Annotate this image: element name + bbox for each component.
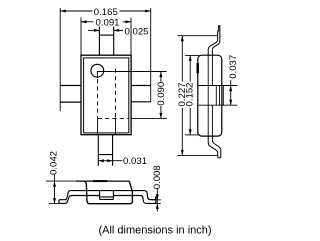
svg-text:0.025: 0.025 <box>125 26 149 37</box>
svg-text:0.091: 0.091 <box>95 17 119 28</box>
svg-text:0.090: 0.090 <box>156 82 167 106</box>
svg-text:0.042: 0.042 <box>48 151 59 175</box>
svg-text:0.037: 0.037 <box>228 55 239 79</box>
svg-text:0.152: 0.152 <box>185 82 196 106</box>
svg-text:0.031: 0.031 <box>123 156 147 167</box>
svg-text:0.165: 0.165 <box>94 7 118 18</box>
svg-text:0.008: 0.008 <box>152 165 163 189</box>
svg-text:(All dimensions in inch): (All dimensions in inch) <box>98 225 211 237</box>
